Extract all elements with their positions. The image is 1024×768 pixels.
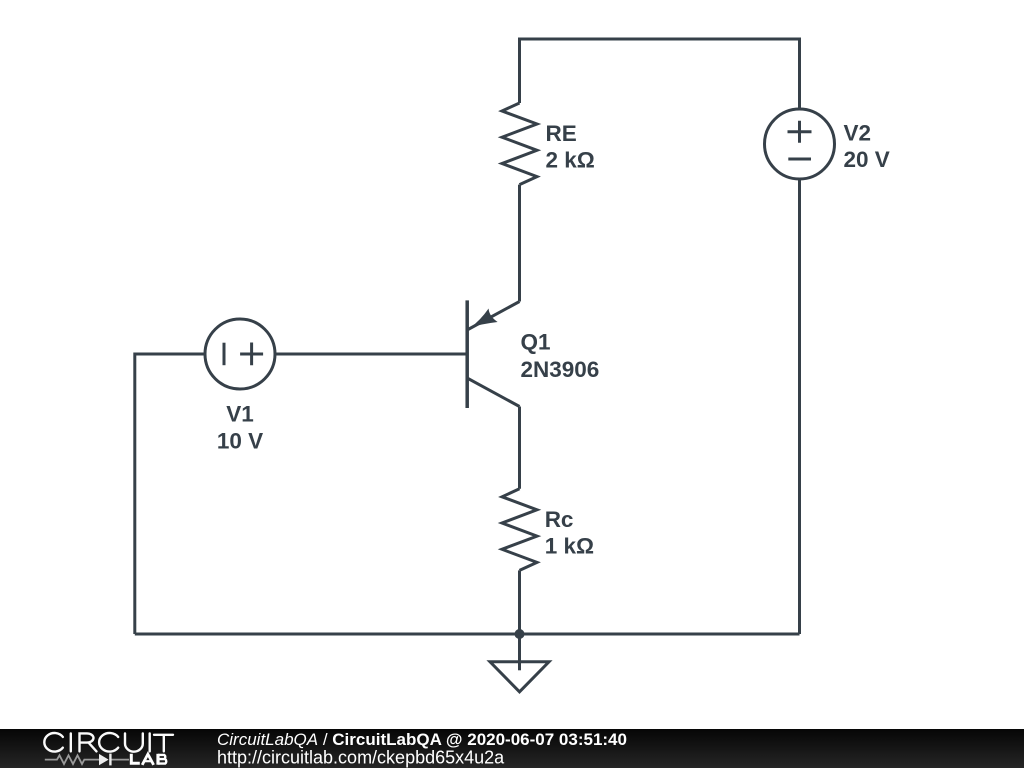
svg-text:V2: V2 — [844, 120, 872, 145]
svg-text:10 V: 10 V — [217, 428, 263, 453]
svg-text:CircuitLabQA / CircuitLabQA @: CircuitLabQA / CircuitLabQA @ 2020-06-07… — [217, 730, 627, 749]
svg-text:20 V: 20 V — [844, 147, 890, 172]
svg-text:2 kΩ: 2 kΩ — [546, 148, 595, 173]
svg-text:Q1: Q1 — [521, 330, 551, 355]
svg-text:V1: V1 — [226, 402, 254, 427]
svg-text:2N3906: 2N3906 — [521, 357, 600, 382]
svg-text:Rc: Rc — [545, 507, 574, 532]
svg-text:RE: RE — [546, 121, 577, 146]
svg-text:http://circuitlab.com/ckepbd65: http://circuitlab.com/ckepbd65x4u2a — [217, 747, 505, 767]
svg-text:1 kΩ: 1 kΩ — [545, 534, 594, 559]
